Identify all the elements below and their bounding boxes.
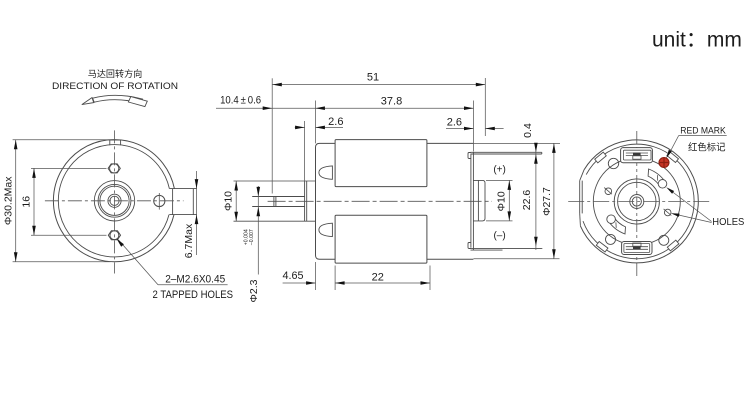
- ext line can bottom right: [474, 258, 560, 260]
- svg-text:4.65: 4.65: [283, 270, 304, 282]
- dim 2.6 left: [295, 126, 305, 128]
- can top window (magnet step): [335, 140, 427, 187]
- svg-text:Φ2.3: Φ2.3: [248, 279, 260, 302]
- front view bearing rings: [98, 184, 131, 217]
- svg-text:22.6: 22.6: [521, 190, 533, 211]
- can rear edge (double): [470, 154, 472, 248]
- rear bearing boss: [473, 180, 485, 221]
- rear view inner rim circle: [583, 144, 694, 259]
- dim dia10 rear: [486, 179, 513, 181]
- rotation curved arrow: [82, 98, 94, 105]
- top vent bump: [319, 166, 333, 179]
- terminal strip top (side): [471, 151, 542, 153]
- rear small screw hole right: [664, 209, 671, 216]
- ext line can front face (up): [315, 101, 317, 144]
- front bearing boss: [304, 181, 306, 221]
- dim 4.65: [283, 282, 316, 284]
- ext lines bottom dims: [315, 262, 317, 290]
- ext line can rear (up): [473, 101, 475, 152]
- svg-text:(+): (+): [493, 165, 506, 176]
- front view boss circle dia10: [94, 181, 134, 221]
- rear view outer circle: [580, 140, 698, 263]
- svg-text:22: 22: [372, 272, 384, 284]
- svg-text:Φ30.2Max: Φ30.2Max: [3, 176, 15, 225]
- dim dia30.2Max: [13, 139, 110, 141]
- svg-text:51: 51: [367, 72, 379, 84]
- svg-text:0.4: 0.4: [522, 123, 534, 138]
- rear terminal bottom: [622, 242, 652, 255]
- svg-text:37.8: 37.8: [381, 96, 402, 108]
- rear view left flat: [579, 181, 581, 214]
- rear endbell circle: [593, 158, 680, 245]
- ext line boss front face (up): [304, 121, 306, 181]
- leader 2 tapped holes: [118, 240, 158, 285]
- svg-text:Φ27.7: Φ27.7: [541, 187, 553, 216]
- can rear crimp tab top: [468, 153, 471, 159]
- red mark leader: [670, 136, 679, 153]
- front view side terminal protrusion (6.7Max): [170, 188, 198, 190]
- svg-text:Φ10: Φ10: [223, 191, 235, 211]
- dim 6.7Max: [196, 171, 198, 255]
- front view shaft circles: [108, 194, 121, 207]
- dim 51: [272, 84, 485, 86]
- front view top tapped hole (hex): [108, 164, 120, 173]
- ext line can top right: [474, 142, 561, 144]
- svg-text:RED MARK: RED MARK: [680, 126, 726, 136]
- rear vent slot upper: [648, 169, 666, 185]
- rear small screw hole left: [605, 188, 612, 195]
- rear shaft circles: [630, 195, 644, 209]
- rear view horizontal centerline: [568, 201, 712, 203]
- svg-text:10.4 ± 0.6: 10.4 ± 0.6: [220, 94, 261, 106]
- rear large holes: [608, 158, 618, 168]
- rear crimp tabs: [667, 152, 679, 163]
- can bottom window (magnet step): [335, 215, 427, 263]
- svg-text:HOLES: HOLES: [712, 217, 744, 228]
- dim 22: [335, 282, 430, 284]
- dim dia27.7: [553, 143, 555, 258]
- svg-text:–0.007: –0.007: [249, 229, 255, 245]
- svg-text:DIRECTION OF ROTATION: DIRECTION OF ROTATION: [52, 81, 178, 91]
- rear vent slot lower: [608, 218, 626, 234]
- can rear crimp tab bottom: [468, 243, 471, 249]
- svg-text:(–): (–): [493, 231, 505, 242]
- front view side hole with crosshair: [154, 195, 165, 206]
- svg-text:6.7Max: 6.7Max: [183, 223, 195, 258]
- ext line rear boss tip: [484, 78, 486, 136]
- svg-text:2–M2.6X0.45: 2–M2.6X0.45: [165, 273, 225, 285]
- front view top seam tab: [109, 140, 111, 145]
- red mark: [659, 158, 669, 168]
- rear view vertical centerline: [636, 131, 638, 277]
- dim 0.4 and 22.6 shared line: [535, 143, 537, 250]
- holes leader: [668, 189, 712, 222]
- ext line bottom strip right: [503, 247, 543, 249]
- front view outer circle (flange dia 30.2): [53, 140, 174, 262]
- svg-text:红色标记: 红色标记: [688, 141, 726, 153]
- svg-text:2 TAPPED HOLES: 2 TAPPED HOLES: [153, 289, 234, 301]
- rear hub rings: [614, 179, 659, 224]
- svg-text:2.6: 2.6: [447, 117, 462, 129]
- front view bottom tapped hole (hex): [108, 231, 120, 240]
- ext line shaft tip: [271, 78, 273, 193]
- dim dia2.3: [257, 186, 259, 275]
- dim dia10 front: [235, 181, 237, 221]
- front view vertical centerline: [114, 130, 116, 273]
- dim 2.6 right: [446, 128, 474, 130]
- rear terminal top: [621, 148, 653, 163]
- svg-text:马达回转方向: 马达回转方向: [88, 68, 143, 79]
- terminal strip bottom (side): [471, 247, 542, 249]
- motor can outline: [316, 143, 474, 259]
- dim 10.4 +- 0.6 and 37.8 shared line: [216, 107, 474, 109]
- svg-text:16: 16: [21, 196, 33, 208]
- bottom vent bump: [319, 223, 333, 236]
- side view centerline: [268, 200, 492, 202]
- svg-text:Φ10: Φ10: [496, 191, 508, 211]
- dim 16: [31, 167, 107, 169]
- shaft: [252, 196, 304, 198]
- svg-text:2.6: 2.6: [328, 116, 343, 128]
- svg-text:unit：mm: unit：mm: [652, 29, 742, 52]
- front view horizontal centerline: [45, 200, 184, 202]
- front view can circle (dia 27.7): [58, 145, 169, 257]
